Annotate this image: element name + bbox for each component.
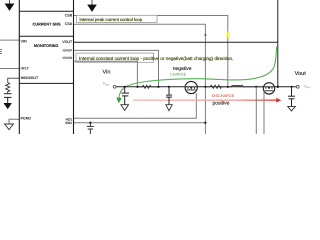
wire SW1 [74,122,206,124]
svg-text:CSB: CSB [65,14,73,18]
resistor R2 sense [205,85,227,88]
svg-text:MONITORING: MONITORING [34,44,59,48]
capacitor C1 [121,87,129,105]
capacitor C4 [288,87,295,107]
Q2 source stem [255,87,257,134]
loop label box 1 [77,15,158,22]
node SW2 tap [255,86,257,88]
svg-text:ISNSN: ISNSN [62,56,72,60]
capacitor C-imon [4,94,12,104]
ground filled triangle under C-imon [4,103,12,109]
svg-text:SW1: SW1 [65,121,72,125]
transistor Q2 [263,83,274,94]
wire IMON/OUT [8,78,20,82]
ground open arrow C3 [166,105,172,111]
ground arrow above loop box [88,0,97,12]
capacitor C3 [166,87,172,105]
svg-text:ISNSP: ISNSP [63,49,73,53]
Q2 gate stem [263,91,265,134]
wire ISNSN run [74,61,138,87]
wire VOUT [74,41,278,43]
wire PGND [9,119,19,124]
wire HO1 [74,93,197,118]
terminal Vbat [113,85,116,88]
loop label box 2 [76,53,154,62]
IC block dividers [19,11,73,83]
svg-text:IMON/OUT: IMON/OUT [21,76,39,80]
node VOUT join [277,86,279,88]
power rail wire right [275,86,297,88]
wire CSB loop [74,16,228,87]
IC block outline [19,0,73,134]
svg-text:CHARGE: CHARGE [170,72,187,76]
svg-text:Vout: Vout [295,71,307,77]
ground open triangle C1 [121,105,129,111]
svg-text:VIN: VIN [21,39,27,43]
green charge arrowhead [116,97,121,103]
resistor R1 shunt [137,85,158,88]
wire ISNSP run [74,50,159,86]
svg-text:PGND: PGND [21,117,32,121]
node ISNSP [157,86,159,88]
resistor R-imon [6,83,10,94]
wire nFLT [0,68,19,70]
ground arrow top-left [5,0,14,11]
svg-text:VOUT: VOUT [62,40,73,44]
capacitor on SW1 [87,123,94,134]
node cap4 [290,86,292,88]
node cap1 [124,86,126,88]
power rail wire left [116,86,185,88]
svg-text:Vin: Vin [103,68,111,75]
svg-text:CSA: CSA [65,22,73,26]
svg-text:DISCHARGE: DISCHARGE [212,94,235,98]
svg-text:Internal peak current control: Internal peak current control loop [79,17,142,22]
green charge arc [119,47,277,98]
inductor L1 [228,85,263,86]
svg-text:Internal constant current loop: Internal constant current loop - positiv… [79,56,233,61]
transistor Q1 [185,81,197,93]
svg-text:nFLT: nFLT [21,67,30,71]
svg-text:positive: positive [213,101,230,107]
ground open triangle PGND [5,124,14,130]
node CSB [227,86,229,88]
wire VOUT vertical [277,0,279,87]
node cap3 [168,86,170,88]
wire VIN input [0,39,19,41]
ground open triangle C4 [288,106,296,111]
power rail wire mid [197,86,263,88]
cropped source dashes at left edge [0,50,2,54]
svg-text:negative: negative [173,66,192,72]
yellow highlight on CSB wire [226,31,229,37]
wire CSA loop [74,24,206,134]
node tick on CSA wire [205,34,207,36]
node ISNSN [136,86,138,88]
svg-text:CURRENT SNS: CURRENT SNS [32,21,61,26]
terminal Vsys [296,85,299,88]
node SW [204,86,206,88]
